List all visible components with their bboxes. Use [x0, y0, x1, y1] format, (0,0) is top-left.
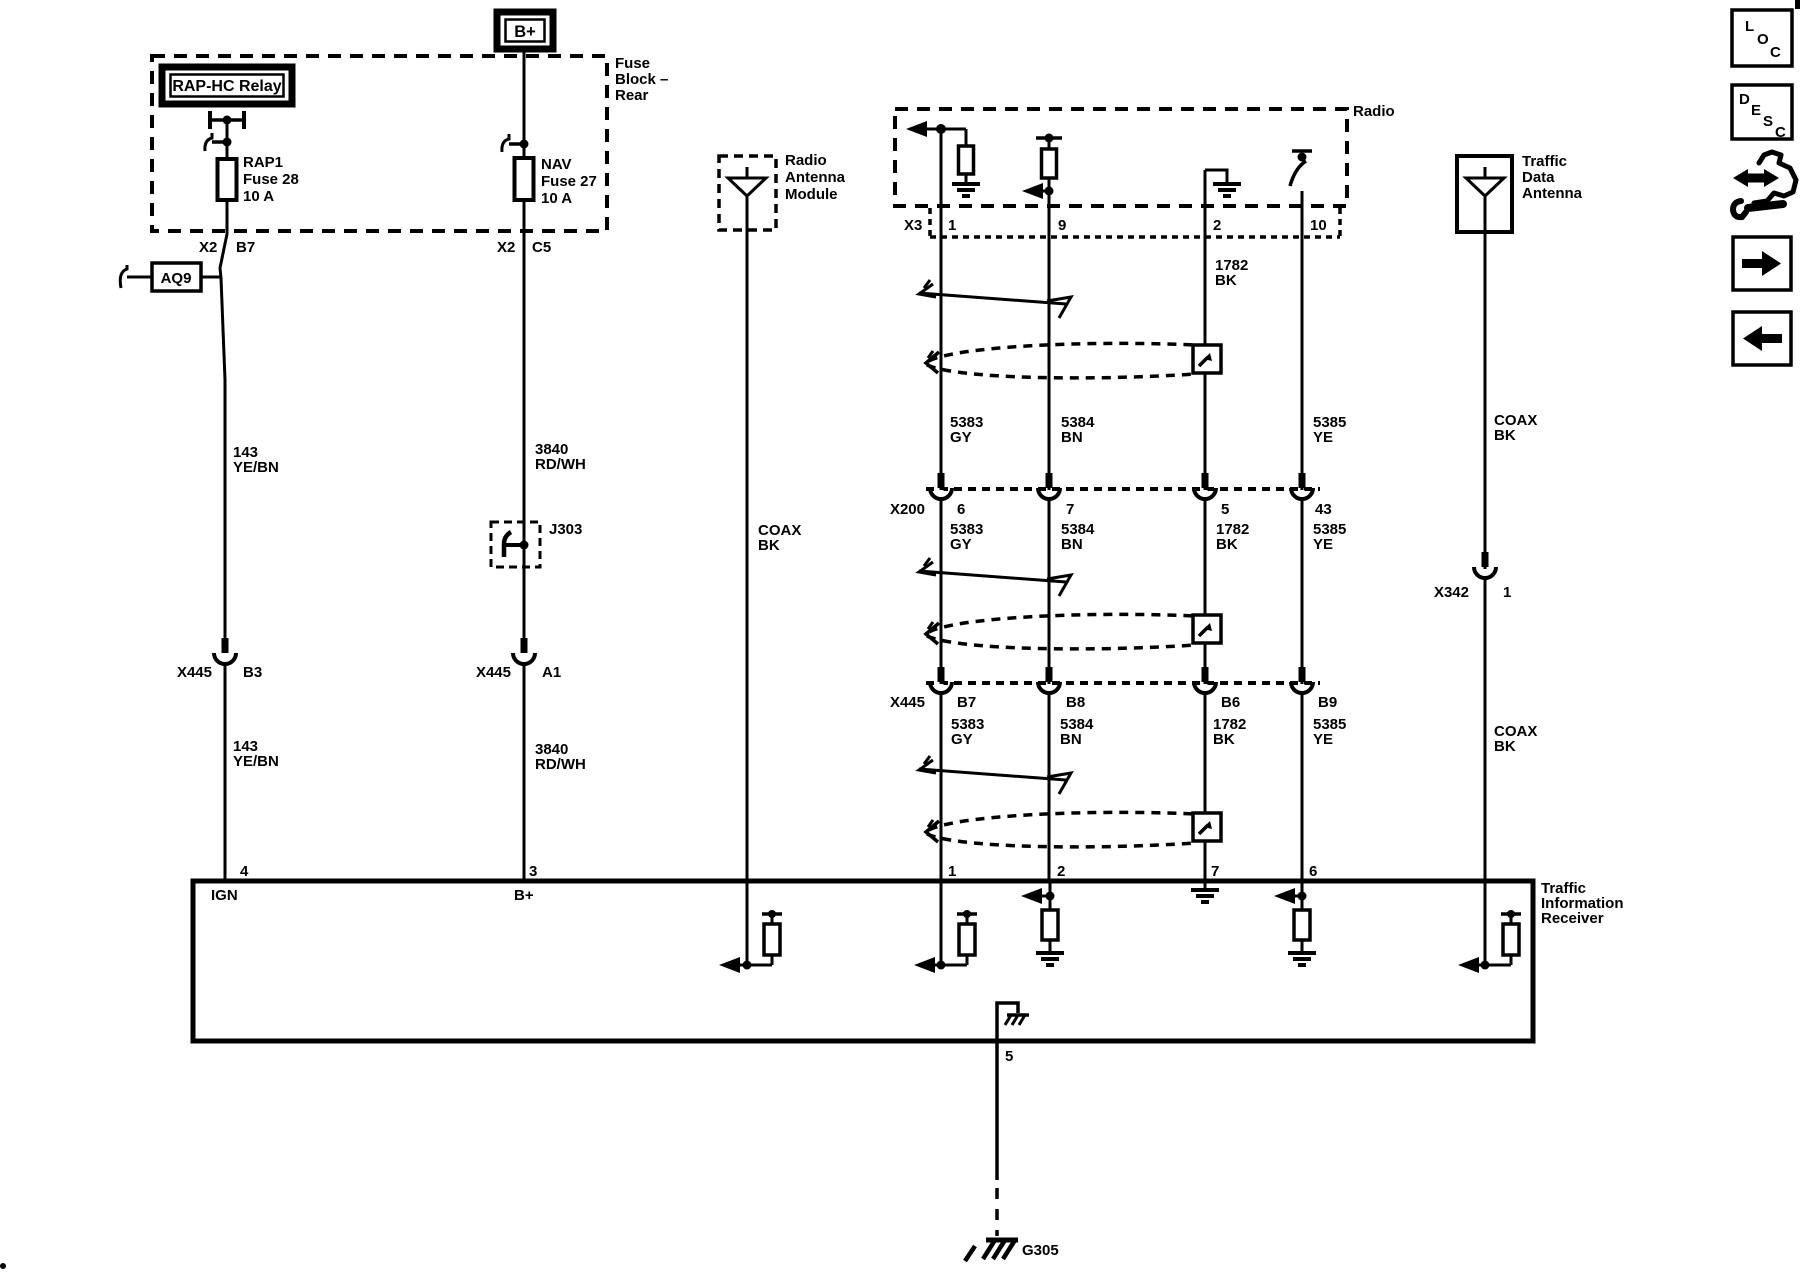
- svg-text:Rear: Rear: [615, 87, 649, 104]
- svg-text:GY: GY: [950, 429, 972, 446]
- svg-text:BN: BN: [1061, 536, 1083, 553]
- svg-text:9: 9: [1058, 217, 1066, 234]
- svg-text:RD/WH: RD/WH: [535, 756, 586, 773]
- svg-text:7: 7: [1211, 863, 1219, 880]
- svg-text:RAP-HC Relay: RAP-HC Relay: [172, 78, 281, 95]
- svg-text:Fuse 28: Fuse 28: [243, 171, 299, 188]
- svg-text:B+: B+: [514, 887, 534, 904]
- svg-text:BK: BK: [758, 537, 780, 554]
- svg-text:BK: BK: [1215, 272, 1237, 289]
- svg-text:Traffic: Traffic: [1522, 153, 1567, 170]
- svg-text:S: S: [1763, 113, 1773, 130]
- svg-text:Data: Data: [1522, 169, 1555, 186]
- svg-text:2: 2: [1057, 863, 1065, 880]
- svg-text:6: 6: [1309, 863, 1317, 880]
- svg-text:Receiver: Receiver: [1541, 910, 1604, 927]
- svg-text:X2: X2: [497, 239, 515, 256]
- svg-text:AQ9: AQ9: [161, 270, 192, 287]
- svg-text:B9: B9: [1318, 694, 1337, 711]
- svg-text:BK: BK: [1494, 738, 1516, 755]
- svg-text:1: 1: [948, 217, 956, 234]
- svg-text:Fuse 27: Fuse 27: [541, 173, 597, 190]
- svg-text:C5: C5: [532, 239, 551, 256]
- svg-text:Block –: Block –: [615, 71, 668, 88]
- svg-text:X445: X445: [890, 694, 925, 711]
- svg-text:X342: X342: [1434, 584, 1469, 601]
- svg-text:E: E: [1751, 102, 1761, 119]
- svg-text:Antenna: Antenna: [1522, 185, 1583, 202]
- svg-text:L: L: [1745, 18, 1754, 35]
- svg-text:G305: G305: [1022, 1242, 1059, 1259]
- svg-text:BK: BK: [1213, 731, 1235, 748]
- svg-text:D: D: [1739, 91, 1750, 108]
- svg-text:1: 1: [1503, 584, 1511, 601]
- svg-text:B7: B7: [236, 239, 255, 256]
- svg-text:O: O: [1757, 31, 1769, 48]
- svg-text:X2: X2: [199, 239, 217, 256]
- svg-text:GY: GY: [950, 536, 972, 553]
- svg-text:YE: YE: [1313, 429, 1333, 446]
- svg-text:RD/WH: RD/WH: [535, 456, 586, 473]
- svg-text:10 A: 10 A: [243, 188, 274, 205]
- svg-text:J303: J303: [549, 521, 582, 538]
- svg-text:YE/BN: YE/BN: [233, 753, 279, 770]
- svg-text:2: 2: [1213, 217, 1221, 234]
- svg-text:BK: BK: [1494, 427, 1516, 444]
- svg-text:X445: X445: [476, 664, 511, 681]
- svg-text:C: C: [1775, 124, 1786, 141]
- svg-text:BN: BN: [1060, 731, 1082, 748]
- svg-text:B6: B6: [1221, 694, 1240, 711]
- svg-text:5: 5: [1221, 501, 1229, 518]
- svg-text:43: 43: [1315, 501, 1332, 518]
- svg-text:Radio: Radio: [1353, 103, 1395, 120]
- svg-text:A1: A1: [542, 664, 561, 681]
- svg-text:BK: BK: [1216, 536, 1238, 553]
- svg-text:YE/BN: YE/BN: [233, 459, 279, 476]
- svg-text:X3: X3: [904, 217, 922, 234]
- svg-text:GY: GY: [951, 731, 973, 748]
- svg-text:Radio: Radio: [785, 152, 827, 169]
- svg-text:7: 7: [1066, 501, 1074, 518]
- svg-text:10 A: 10 A: [541, 190, 572, 207]
- svg-text:C: C: [1770, 44, 1781, 61]
- svg-text:B3: B3: [243, 664, 262, 681]
- svg-text:YE: YE: [1313, 536, 1333, 553]
- svg-text:NAV: NAV: [541, 156, 572, 173]
- svg-text:X200: X200: [890, 501, 925, 518]
- svg-text:Fuse: Fuse: [615, 55, 650, 72]
- svg-text:1: 1: [948, 863, 956, 880]
- svg-text:5: 5: [1005, 1048, 1013, 1065]
- svg-text:RAP1: RAP1: [243, 154, 283, 171]
- svg-text:IGN: IGN: [211, 887, 238, 904]
- svg-text:BN: BN: [1061, 429, 1083, 446]
- svg-text:X445: X445: [177, 664, 212, 681]
- svg-text:Antenna: Antenna: [785, 169, 846, 186]
- svg-text:YE: YE: [1313, 731, 1333, 748]
- svg-text:3: 3: [529, 863, 537, 880]
- svg-text:B8: B8: [1066, 694, 1085, 711]
- svg-text:10: 10: [1310, 217, 1327, 234]
- svg-text:B+: B+: [514, 23, 536, 41]
- svg-text:Module: Module: [785, 186, 838, 203]
- svg-text:B7: B7: [957, 694, 976, 711]
- svg-text:4: 4: [240, 863, 249, 880]
- svg-text:6: 6: [957, 501, 965, 518]
